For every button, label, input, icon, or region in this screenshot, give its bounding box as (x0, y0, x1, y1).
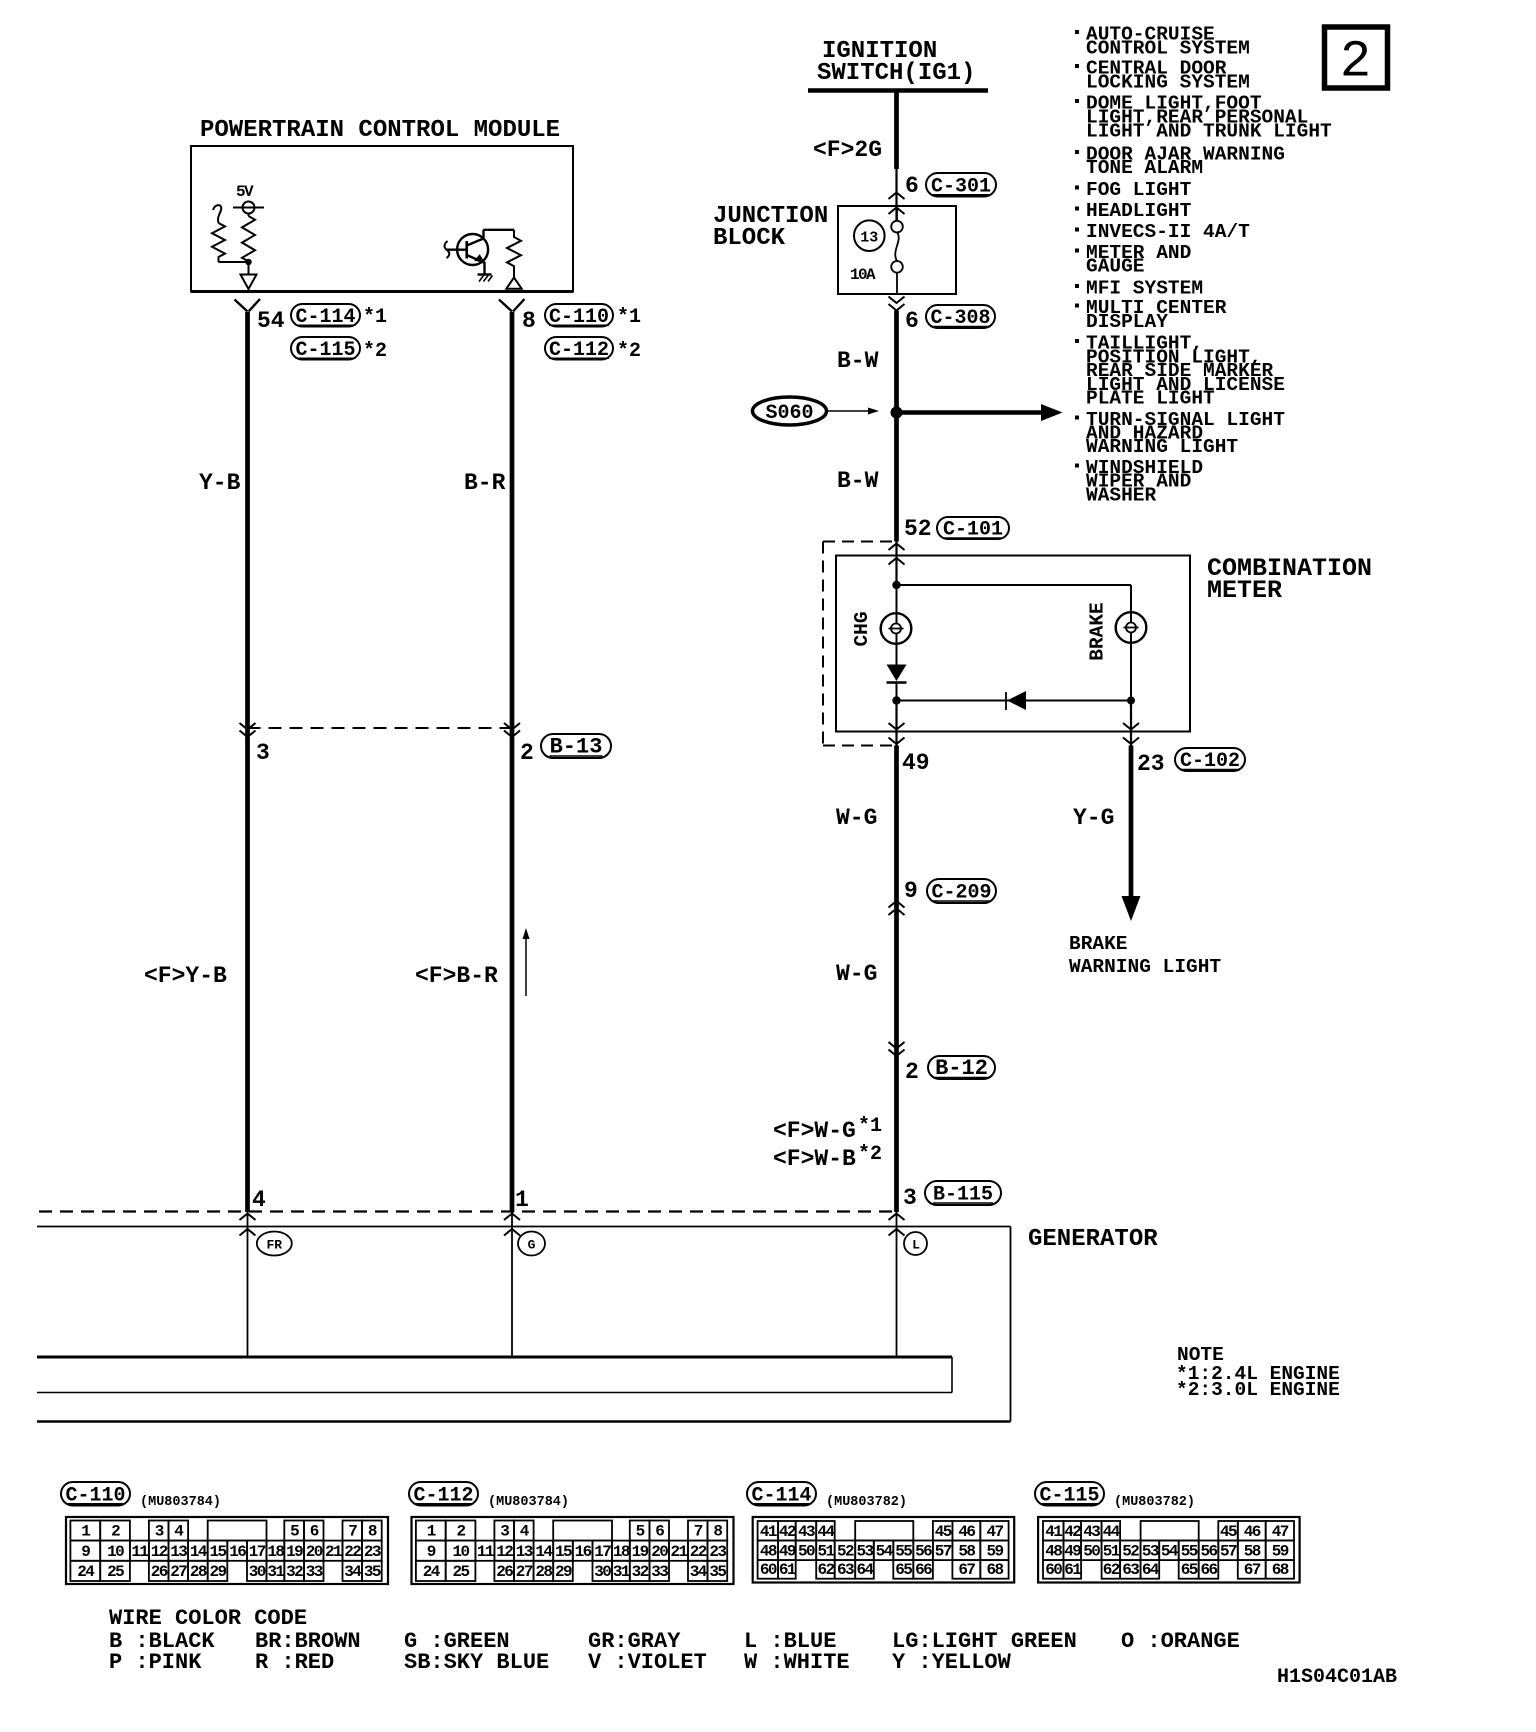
svg-text:7: 7 (694, 1523, 703, 1541)
svg-text:(MU803782): (MU803782) (826, 1495, 907, 1510)
svg-text:2: 2 (905, 1059, 919, 1085)
svg-text:41: 41 (760, 1523, 777, 1541)
svg-text:23: 23 (709, 1543, 726, 1561)
svg-text:54: 54 (257, 308, 285, 334)
wire FR inside generator (247, 1212, 249, 1357)
wire thick arrow to taillight circuits (897, 410, 1045, 415)
svg-text:9: 9 (81, 1543, 90, 1561)
connector C-114 detail (747, 1482, 816, 1506)
svg-text:Y-B: Y-B (199, 470, 241, 496)
svg-text:17: 17 (249, 1543, 266, 1561)
svg-text:H1S04C01AB: H1S04C01AB (1277, 1666, 1397, 1689)
svg-text:L: L (912, 1238, 920, 1253)
svg-text:20: 20 (306, 1543, 323, 1561)
resistor R2 sensor leg with squiggle top (213, 205, 221, 223)
svg-text:GAUGE: GAUGE (1086, 256, 1145, 278)
svg-text:O :ORANGE: O :ORANGE (1121, 1629, 1240, 1654)
svg-text:46: 46 (1244, 1523, 1261, 1541)
svg-text:(MU803782): (MU803782) (1114, 1495, 1195, 1510)
resistor R1 sensor pull-up (248, 214, 250, 217)
svg-text:33: 33 (306, 1563, 323, 1581)
svg-text:61: 61 (1064, 1561, 1081, 1579)
wire Y-B from pin 54 (245, 312, 250, 1212)
svg-text:21: 21 (325, 1543, 342, 1561)
svg-text:7: 7 (348, 1523, 357, 1541)
svg-text:2: 2 (1340, 33, 1371, 92)
svg-text:43: 43 (1083, 1523, 1100, 1541)
svg-text:44: 44 (1103, 1523, 1121, 1541)
svg-text:METER: METER (1207, 576, 1282, 605)
svg-text:V :VIOLET: V :VIOLET (588, 1650, 707, 1675)
connector chevrons at pin 2 (504, 723, 520, 730)
svg-text:58: 58 (1244, 1543, 1261, 1561)
node meter bottom junction (892, 696, 900, 704)
svg-text:14: 14 (535, 1543, 553, 1561)
svg-text:2: 2 (456, 1523, 465, 1541)
connector B-115 capsule (925, 1181, 1001, 1205)
ignition switch bus bar (808, 88, 988, 93)
svg-text:*2: *2 (363, 340, 387, 363)
connector B-12 capsule (928, 1056, 995, 1079)
wire G inside generator (511, 1212, 513, 1357)
connector B-13 capsule (541, 734, 611, 758)
wire to pin 54 (248, 262, 250, 274)
svg-text:15: 15 (209, 1543, 226, 1561)
svg-text:SB:SKY BLUE: SB:SKY BLUE (404, 1650, 549, 1675)
svg-text:WASHER: WASHER (1086, 485, 1157, 507)
svg-text:22: 22 (690, 1543, 707, 1561)
svg-text:W :WHITE: W :WHITE (744, 1650, 850, 1675)
svg-text:30: 30 (249, 1563, 266, 1581)
svg-text:6: 6 (310, 1523, 319, 1541)
svg-text:52: 52 (1122, 1543, 1139, 1561)
svg-text:CONTROL SYSTEM: CONTROL SYSTEM (1086, 38, 1250, 60)
svg-text:34: 34 (690, 1563, 708, 1581)
svg-text:26: 26 (496, 1563, 513, 1581)
direction arrow up (525, 938, 527, 996)
svg-text:10A: 10A (850, 266, 876, 284)
svg-text:B-W: B-W (837, 348, 879, 374)
svg-text:33: 33 (651, 1563, 668, 1581)
splice S060 (753, 397, 827, 425)
svg-text:64: 64 (856, 1561, 874, 1579)
svg-text:FOG LIGHT: FOG LIGHT (1086, 179, 1192, 201)
svg-text:35: 35 (364, 1563, 381, 1581)
svg-text:12: 12 (496, 1543, 513, 1561)
lamp CHG (896, 585, 898, 665)
fuse element (896, 206, 898, 221)
fuse 13 circle label (854, 220, 885, 251)
svg-text:24: 24 (423, 1563, 441, 1581)
svg-text:13: 13 (170, 1543, 187, 1561)
svg-text:50: 50 (798, 1543, 815, 1561)
svg-text:61: 61 (779, 1561, 796, 1579)
svg-text:23: 23 (1137, 751, 1165, 777)
svg-text:6: 6 (655, 1523, 664, 1541)
svg-text:6: 6 (905, 173, 919, 199)
svg-text:54: 54 (1161, 1543, 1179, 1561)
svg-text:66: 66 (915, 1561, 932, 1579)
svg-text:15: 15 (555, 1543, 572, 1561)
svg-text:G: G (528, 1238, 536, 1253)
svg-text:20: 20 (651, 1543, 668, 1561)
svg-text:1: 1 (515, 1187, 529, 1213)
svg-text:29: 29 (555, 1563, 572, 1581)
svg-text:49: 49 (1064, 1543, 1081, 1561)
svg-text:43: 43 (798, 1523, 815, 1541)
svg-text:FR: FR (266, 1238, 282, 1253)
svg-text:45: 45 (935, 1523, 952, 1541)
svg-text:57: 57 (935, 1543, 952, 1561)
svg-text:INVECS-II 4A/T: INVECS-II 4A/T (1086, 221, 1250, 243)
svg-text:25: 25 (452, 1563, 469, 1581)
svg-text:27: 27 (170, 1563, 187, 1581)
connector C-102 capsule (1175, 748, 1245, 771)
svg-text:DISPLAY: DISPLAY (1086, 311, 1168, 333)
svg-text:42: 42 (779, 1523, 796, 1541)
connector C-209 chevrons (889, 901, 905, 908)
svg-text:56: 56 (915, 1543, 932, 1561)
svg-text:32: 32 (286, 1563, 303, 1581)
connector C-101 chevrons (895, 542, 897, 586)
wire Y-G brake warning arrow (1129, 746, 1134, 901)
svg-text:55: 55 (1181, 1543, 1198, 1561)
svg-text:67: 67 (958, 1561, 975, 1579)
connector chevrons at pin 3 (240, 723, 256, 730)
svg-text:67: 67 (1244, 1561, 1261, 1579)
svg-text:63: 63 (837, 1561, 854, 1579)
generator terminal chevrons FR (240, 1214, 256, 1221)
svg-text:19: 19 (286, 1543, 303, 1561)
svg-text:68: 68 (986, 1561, 1003, 1579)
svg-text:16: 16 (575, 1543, 592, 1561)
svg-text:50: 50 (1083, 1543, 1100, 1561)
svg-text:1: 1 (81, 1523, 90, 1541)
svg-text:1: 1 (427, 1523, 436, 1541)
svg-text:49: 49 (902, 750, 930, 776)
svg-text:68: 68 (1272, 1561, 1289, 1579)
diode D1 (896, 644, 898, 666)
svg-text:60: 60 (1045, 1561, 1062, 1579)
svg-text:24: 24 (77, 1563, 95, 1581)
connector C-112 detail (409, 1482, 478, 1506)
connector C-308 chevrons (889, 297, 905, 304)
wire meter internal bottom with arrow (897, 700, 1132, 702)
svg-text:58: 58 (958, 1543, 975, 1561)
svg-text:4: 4 (252, 1187, 266, 1213)
transistor Q1 (457, 234, 488, 265)
svg-text:48: 48 (1045, 1543, 1062, 1561)
svg-text:59: 59 (986, 1543, 1003, 1561)
svg-text:66: 66 (1200, 1561, 1217, 1579)
svg-text:HEADLIGHT: HEADLIGHT (1086, 200, 1192, 222)
node S060 junction dot (891, 407, 903, 419)
combination meter dashed outline (823, 541, 896, 543)
svg-text:65: 65 (895, 1561, 912, 1579)
connector C-308 capsule (926, 305, 995, 328)
svg-text:18: 18 (267, 1543, 284, 1561)
svg-text:*2: *2 (617, 340, 641, 363)
svg-text:WARNING LIGHT: WARNING LIGHT (1069, 956, 1221, 978)
svg-text:3: 3 (155, 1523, 164, 1541)
svg-text:21: 21 (670, 1543, 687, 1561)
svg-text:56: 56 (1200, 1543, 1217, 1561)
svg-text:28: 28 (190, 1563, 207, 1581)
svg-text:B-W: B-W (837, 468, 879, 494)
svg-text:19: 19 (632, 1543, 649, 1561)
connector C-101 capsule (937, 517, 1009, 539)
pin 54 fork terminal (235, 299, 261, 312)
svg-text:8: 8 (522, 308, 536, 334)
svg-text:55: 55 (895, 1543, 912, 1561)
pin 54 open triangle (241, 275, 257, 290)
svg-text:35: 35 (709, 1563, 726, 1581)
svg-text:PLATE LIGHT: PLATE LIGHT (1086, 388, 1215, 410)
svg-text:WIRE COLOR CODE: WIRE COLOR CODE (109, 1606, 307, 1631)
svg-text:LOCKING SYSTEM: LOCKING SYSTEM (1086, 72, 1250, 94)
svg-text:<F>2G: <F>2G (813, 137, 882, 163)
svg-text:30: 30 (594, 1563, 611, 1581)
svg-text:17: 17 (594, 1543, 611, 1561)
svg-text:TONE ALARM: TONE ALARM (1086, 157, 1203, 179)
svg-text:13: 13 (860, 230, 878, 247)
svg-text:3: 3 (903, 1185, 917, 1211)
svg-text:51: 51 (1103, 1543, 1120, 1561)
svg-text:R :RED: R :RED (255, 1650, 334, 1675)
svg-text:*2: *2 (858, 1143, 882, 1166)
svg-text:41: 41 (1045, 1523, 1062, 1541)
svg-text:14: 14 (190, 1543, 208, 1561)
svg-text:8: 8 (713, 1523, 722, 1541)
svg-text:48: 48 (760, 1543, 777, 1561)
connector C-110 capsule (545, 304, 613, 327)
connector C-114 capsule (291, 304, 360, 327)
svg-text:BLOCK: BLOCK (713, 225, 786, 252)
svg-text:6: 6 (905, 308, 919, 334)
svg-text:S060: S060 (765, 402, 813, 425)
svg-text:LIGHT AND TRUNK LIGHT: LIGHT AND TRUNK LIGHT (1086, 121, 1332, 143)
svg-text:47: 47 (1272, 1523, 1289, 1541)
wire B-R from pin 8 (510, 312, 515, 1212)
wire join resistors (219, 261, 249, 263)
svg-text:*1: *1 (617, 306, 641, 329)
svg-text:<F>W-G: <F>W-G (773, 1118, 856, 1144)
svg-text:(MU803784): (MU803784) (488, 1495, 569, 1510)
connector C-301 capsule (926, 173, 996, 197)
svg-text:BRAKE: BRAKE (1069, 933, 1128, 955)
svg-text:(MU803784): (MU803784) (140, 1495, 221, 1510)
junction block box (838, 206, 956, 294)
wire W-G down (894, 746, 899, 1213)
svg-text:52: 52 (837, 1543, 854, 1561)
connector C-112 capsule (545, 337, 613, 360)
svg-text:32: 32 (632, 1563, 649, 1581)
svg-text:3: 3 (500, 1523, 509, 1541)
lamp BRAKE (1116, 612, 1147, 643)
node meter top junction (892, 581, 900, 589)
svg-text:51: 51 (817, 1543, 834, 1561)
wire from ignition switch (894, 91, 899, 170)
svg-text:B-R: B-R (464, 470, 506, 496)
svg-text:5: 5 (290, 1523, 299, 1541)
arrow from splice (828, 410, 870, 412)
svg-text:WARNING LIGHT: WARNING LIGHT (1086, 436, 1238, 458)
pin 8 fork terminal (499, 299, 525, 312)
ground Q1 emitter (478, 273, 492, 275)
svg-text:*1: *1 (858, 1115, 882, 1138)
svg-text:*1: *1 (363, 306, 387, 329)
connector C-301 chevrons (895, 169, 897, 221)
combination meter box (836, 556, 1190, 732)
svg-text:16: 16 (229, 1543, 246, 1561)
connector C-115 detail (1035, 1482, 1104, 1506)
terminal G oval (518, 1232, 545, 1256)
connector B-13 dashed link (248, 727, 513, 729)
svg-text:Y :YELLOW: Y :YELLOW (892, 1650, 1012, 1675)
svg-text:47: 47 (986, 1523, 1003, 1541)
svg-text:46: 46 (958, 1523, 975, 1541)
svg-text:CHG: CHG (851, 611, 873, 646)
svg-text:5V: 5V (236, 183, 254, 201)
wire L inside generator (896, 1212, 898, 1357)
svg-text:23: 23 (364, 1543, 381, 1561)
svg-text:54: 54 (876, 1543, 894, 1561)
svg-text:P :PINK: P :PINK (109, 1650, 202, 1675)
svg-text:31: 31 (267, 1563, 284, 1581)
svg-text:28: 28 (535, 1563, 552, 1581)
svg-text:BRAKE: BRAKE (1087, 602, 1109, 661)
wire meter internal top (897, 584, 1132, 586)
svg-text:63: 63 (1122, 1561, 1139, 1579)
wire B-W junction block to meter (894, 311, 899, 542)
generator box (37, 1226, 1011, 1228)
svg-text:2: 2 (520, 740, 534, 766)
terminal L oval (904, 1232, 927, 1255)
svg-text:62: 62 (1103, 1561, 1120, 1579)
resistor R3 collector load (507, 230, 521, 277)
connector chevrons pin 49 (895, 701, 897, 746)
svg-text:45: 45 (1220, 1523, 1237, 1541)
connector C-110 detail (61, 1482, 130, 1506)
svg-text:POWERTRAIN CONTROL MODULE: POWERTRAIN CONTROL MODULE (200, 117, 560, 144)
svg-text:W-G: W-G (836, 961, 877, 987)
svg-text:GENERATOR: GENERATOR (1028, 1226, 1158, 1253)
svg-text:<F>B-R: <F>B-R (415, 963, 498, 989)
svg-text:26: 26 (151, 1563, 168, 1581)
svg-text:44: 44 (817, 1523, 835, 1541)
svg-text:<F>W-B: <F>W-B (773, 1146, 856, 1172)
svg-text:13: 13 (516, 1543, 533, 1561)
connector C-115 capsule (291, 337, 360, 360)
system application list (1075, 30, 1079, 34)
svg-text:8: 8 (368, 1523, 377, 1541)
generator terminal chevrons G (504, 1214, 520, 1221)
svg-text:64: 64 (1142, 1561, 1160, 1579)
svg-text:53: 53 (1142, 1543, 1159, 1561)
svg-text:62: 62 (817, 1561, 834, 1579)
svg-text:W-G: W-G (836, 805, 877, 831)
svg-text:27: 27 (516, 1563, 533, 1581)
connector B-12 chevrons (889, 1042, 905, 1049)
svg-text:52: 52 (904, 516, 932, 542)
svg-text:29: 29 (209, 1563, 226, 1581)
svg-text:3: 3 (256, 740, 270, 766)
svg-text:10: 10 (452, 1543, 469, 1561)
svg-text:60: 60 (760, 1561, 777, 1579)
svg-text:5: 5 (636, 1523, 645, 1541)
svg-text:*2:3.0L ENGINE: *2:3.0L ENGINE (1176, 1379, 1340, 1401)
svg-text:49: 49 (779, 1543, 796, 1561)
svg-text:10: 10 (107, 1543, 124, 1561)
terminal FR oval (257, 1232, 292, 1256)
svg-text:11: 11 (131, 1543, 148, 1561)
svg-text:9: 9 (904, 878, 918, 904)
svg-text:31: 31 (613, 1563, 630, 1581)
connector C-209 capsule (927, 879, 996, 903)
generator internal block (37, 1356, 952, 1359)
connector chevrons pin 23 (1130, 701, 1132, 746)
svg-text:22: 22 (344, 1543, 361, 1561)
svg-text:SWITCH(IG1): SWITCH(IG1) (817, 60, 975, 87)
svg-text:57: 57 (1220, 1543, 1237, 1561)
svg-text:59: 59 (1272, 1543, 1289, 1561)
svg-text:12: 12 (151, 1543, 168, 1561)
pin 8 open triangle (506, 278, 521, 289)
svg-text:25: 25 (107, 1563, 124, 1581)
svg-text:42: 42 (1064, 1523, 1081, 1541)
svg-text:18: 18 (613, 1543, 630, 1561)
generator terminal chevrons L (889, 1214, 905, 1221)
svg-text:34: 34 (344, 1563, 362, 1581)
page number box (1325, 27, 1388, 88)
svg-text:65: 65 (1181, 1561, 1198, 1579)
node junction dot (245, 259, 251, 265)
svg-text:53: 53 (856, 1543, 873, 1561)
svg-text:9: 9 (427, 1543, 436, 1561)
harness dashed line (39, 1210, 897, 1212)
svg-text:<F>Y-B: <F>Y-B (144, 963, 227, 989)
powertrain control module box (191, 146, 573, 292)
svg-text:11: 11 (477, 1543, 494, 1561)
svg-text:Y-G: Y-G (1073, 805, 1114, 831)
svg-text:2: 2 (111, 1523, 120, 1541)
